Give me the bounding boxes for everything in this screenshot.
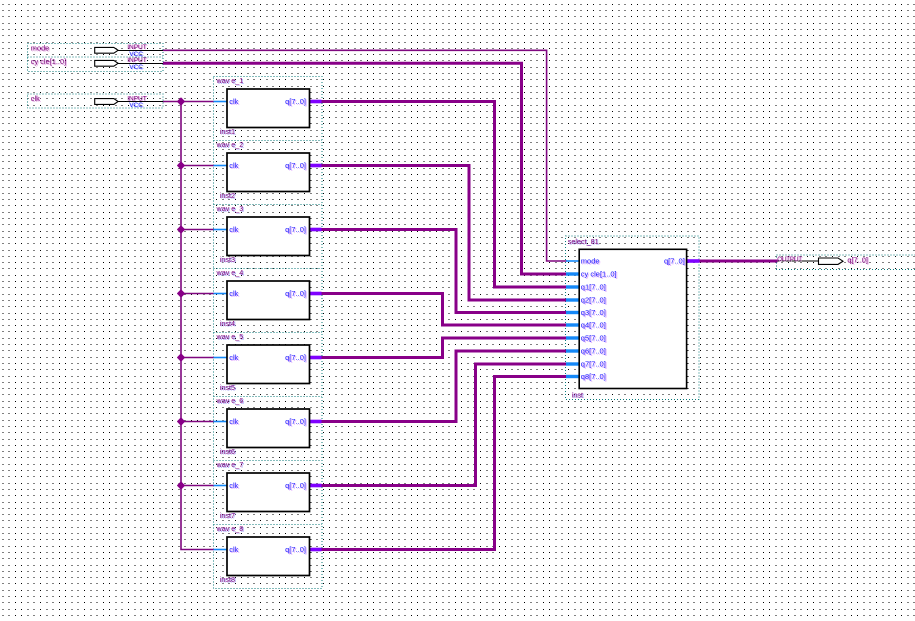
selection outline select_81 xyxy=(566,236,700,400)
svg-text:wav e_2: wav e_2 xyxy=(216,140,244,149)
input pin mode xyxy=(31,44,163,58)
svg-text:wav e_8: wav e_8 xyxy=(216,524,244,533)
bus wave_5.q to select_81.q5 xyxy=(321,338,567,358)
bus wave_4.q to select_81.q4 xyxy=(321,294,567,326)
junction clk branch wave_6 xyxy=(178,418,185,425)
selection outline input pin clk xyxy=(28,94,164,108)
svg-text:clk: clk xyxy=(229,289,238,298)
svg-text:wav e_1: wav e_1 xyxy=(216,76,244,85)
input pin clk xyxy=(31,94,163,109)
svg-text:mode: mode xyxy=(581,257,600,266)
svg-text:inst4: inst4 xyxy=(220,319,235,328)
svg-text:VCC: VCC xyxy=(129,64,143,71)
output pin q[7..0] xyxy=(777,255,868,264)
junction clk branch wave_2 xyxy=(178,162,185,169)
svg-text:q[7..0]: q[7..0] xyxy=(285,225,306,234)
selection outline output pin xyxy=(777,255,915,269)
junction clk branch wave_1 xyxy=(178,98,185,105)
bus wave_1.q to select_81.q1 xyxy=(321,102,567,288)
svg-text:inst8: inst8 xyxy=(220,575,235,584)
svg-text:inst7: inst7 xyxy=(220,511,235,520)
svg-text:OUTPUT: OUTPUT xyxy=(777,257,802,263)
block wave_2 (inst2) xyxy=(214,140,322,200)
svg-text:cy cle[1..0]: cy cle[1..0] xyxy=(31,57,66,66)
bus wave_6.q to select_81.q6 xyxy=(321,351,567,422)
svg-text:clk: clk xyxy=(229,225,238,234)
block wave_1 (inst1) xyxy=(214,76,322,136)
svg-text:wav e_4: wav e_4 xyxy=(216,268,244,277)
svg-text:mode: mode xyxy=(31,44,50,53)
svg-text:q2[7..0]: q2[7..0] xyxy=(581,296,606,305)
svg-text:q[7..0]: q[7..0] xyxy=(285,289,306,298)
input pin cy cle[1..0] xyxy=(31,57,163,71)
svg-text:q[7..0]: q[7..0] xyxy=(285,97,306,106)
svg-text:q5[7..0]: q5[7..0] xyxy=(581,334,606,343)
svg-text:inst6: inst6 xyxy=(220,447,235,456)
svg-text:wav e_5: wav e_5 xyxy=(216,332,244,341)
bus wave_8.q to select_81.q8 xyxy=(321,377,567,550)
svg-text:clk: clk xyxy=(229,545,238,554)
svg-text:clk: clk xyxy=(31,94,40,103)
junction clk branch wave_4 xyxy=(178,290,185,297)
svg-text:inst2: inst2 xyxy=(220,191,235,200)
svg-text:VCC: VCC xyxy=(129,102,143,109)
svg-text:select_81: select_81 xyxy=(568,237,599,246)
svg-text:q[7..0]: q[7..0] xyxy=(285,353,306,362)
bus wave_3.q to select_81.q3 xyxy=(321,230,567,313)
svg-text:clk: clk xyxy=(229,417,238,426)
svg-text:q[7..0]: q[7..0] xyxy=(847,255,868,264)
svg-text:wav e_7: wav e_7 xyxy=(216,460,244,469)
svg-text:q[7..0]: q[7..0] xyxy=(285,161,306,170)
svg-text:q3[7..0]: q3[7..0] xyxy=(581,308,606,317)
svg-text:inst5: inst5 xyxy=(220,383,235,392)
selection outline input pins mode & cy cle[1..0] xyxy=(28,44,164,72)
svg-text:q[7..0]: q[7..0] xyxy=(285,481,306,490)
bus wave_2.q to select_81.q2 xyxy=(321,166,567,301)
svg-text:q4[7..0]: q4[7..0] xyxy=(581,321,606,330)
bus select_81.q to output pin xyxy=(699,260,778,263)
block wave_3 (inst3) xyxy=(214,204,322,264)
svg-text:q6[7..0]: q6[7..0] xyxy=(581,347,606,356)
svg-text:q[7..0]: q[7..0] xyxy=(664,257,685,266)
svg-text:q[7..0]: q[7..0] xyxy=(285,545,306,554)
svg-text:clk: clk xyxy=(229,481,238,490)
svg-text:wav e_6: wav e_6 xyxy=(216,396,244,405)
svg-text:clk: clk xyxy=(229,97,238,106)
junction clk branch wave_5 xyxy=(178,354,185,361)
svg-text:inst1: inst1 xyxy=(220,127,235,136)
svg-text:cy cle[1..0]: cy cle[1..0] xyxy=(581,270,617,279)
selection outline wave block column xyxy=(214,77,323,589)
svg-text:clk: clk xyxy=(229,161,238,170)
svg-text:inst3: inst3 xyxy=(220,255,235,264)
svg-text:q8[7..0]: q8[7..0] xyxy=(581,372,606,381)
block wave_5 (inst5) xyxy=(214,332,322,392)
svg-text:q[7..0]: q[7..0] xyxy=(285,417,306,426)
wire clk net trunk and branches xyxy=(163,102,214,550)
block wave_6 (inst6) xyxy=(214,396,322,456)
svg-text:inst: inst xyxy=(572,391,583,400)
junction clk branch wave_7 xyxy=(178,482,185,489)
block wave_8 (inst8) xyxy=(214,524,322,584)
bus wave_7.q to select_81.q7 xyxy=(321,364,567,486)
block wave_7 (inst7) xyxy=(214,460,322,520)
junction clk branch wave_3 xyxy=(178,226,185,233)
wire mode net from input pin to select_81.mode xyxy=(163,50,567,261)
svg-text:clk: clk xyxy=(229,353,238,362)
block wave_4 (inst4) xyxy=(214,268,322,328)
svg-text:wav e_3: wav e_3 xyxy=(216,204,244,213)
svg-text:q7[7..0]: q7[7..0] xyxy=(581,360,606,369)
svg-text:q1[7..0]: q1[7..0] xyxy=(581,283,606,292)
wire cy cle[1..0] bus from input pin to select_81 xyxy=(163,63,567,274)
block select_81 (inst) xyxy=(566,237,700,400)
